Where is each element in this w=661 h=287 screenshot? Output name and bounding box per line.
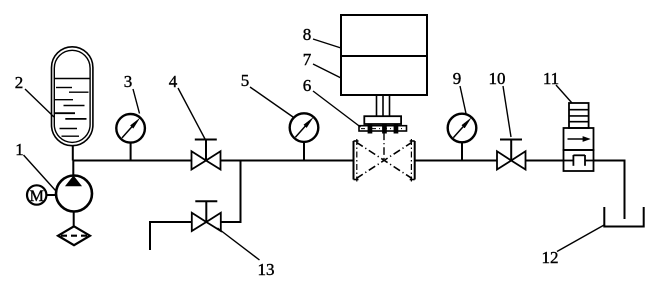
wire main line: flow meter 11 to tank 12 bbox=[594, 161, 625, 220]
actuator box 8 (upper) / 7 (lower) bbox=[341, 15, 427, 95]
svg-text:1: 1 bbox=[15, 140, 24, 159]
leader line 11 bbox=[556, 85, 572, 103]
left flange bbox=[353, 141, 355, 180]
valve 4 bbox=[192, 140, 221, 170]
svg-text:4: 4 bbox=[169, 72, 178, 91]
leader line 3 bbox=[133, 89, 140, 114]
svg-text:12: 12 bbox=[542, 248, 559, 267]
svg-text:13: 13 bbox=[258, 260, 275, 279]
wire branch down to valve 13 bbox=[221, 161, 241, 223]
wire drain from valve 13 bbox=[150, 222, 192, 250]
leader line 9 bbox=[460, 86, 466, 114]
pump 1 bbox=[56, 161, 92, 212]
wire accumulator stem bbox=[72, 146, 74, 161]
test valve (device under test) flanges and body bbox=[354, 133, 415, 182]
dash-dot X diagonal 2 bbox=[356, 142, 412, 178]
gauge 9 bbox=[448, 114, 477, 161]
leader line 10 bbox=[503, 86, 511, 137]
filter (diamond) bbox=[58, 226, 90, 245]
gauge 3 bbox=[116, 114, 145, 161]
vertical dash-dot centerline bbox=[383, 133, 385, 163]
wire main line: test valve right flange to valve 10 bbox=[415, 160, 497, 162]
motor M bbox=[27, 185, 56, 204]
svg-text:8: 8 bbox=[303, 25, 312, 44]
svg-text:10: 10 bbox=[489, 69, 506, 88]
tank 12 bbox=[604, 207, 643, 227]
dash-dot X diagonal 1 bbox=[356, 142, 412, 178]
svg-text:3: 3 bbox=[124, 72, 133, 91]
valve 13 bbox=[192, 201, 221, 231]
flow meter / regulator 11 bbox=[564, 103, 594, 171]
accumulator 2 bbox=[52, 47, 93, 146]
leader line 2 bbox=[25, 89, 54, 117]
leader line 13 bbox=[218, 228, 260, 260]
mounting flange 6 (plates and bolts) bbox=[359, 116, 407, 133]
svg-text:5: 5 bbox=[241, 71, 250, 90]
wire main line: pump junction to valve 4 bbox=[73, 160, 192, 162]
leader line 12 bbox=[557, 225, 605, 252]
svg-text:M: M bbox=[30, 188, 44, 205]
gauge 5 bbox=[290, 113, 319, 160]
leader line 1 bbox=[24, 155, 56, 191]
leader line 6 bbox=[313, 91, 361, 127]
svg-text:2: 2 bbox=[15, 73, 24, 92]
wire main line: valve 4 to test valve left flange bbox=[221, 160, 354, 162]
wire pump to filter bbox=[73, 212, 75, 227]
leader line 7 bbox=[313, 64, 341, 78]
right flange bbox=[414, 141, 416, 180]
leader line 8 bbox=[313, 39, 341, 48]
valve 10 bbox=[497, 140, 526, 170]
svg-text:9: 9 bbox=[453, 69, 462, 88]
wire main line: valve 10 to flow meter 11 bbox=[526, 160, 564, 162]
stem lines from actuator to flange bbox=[377, 95, 390, 116]
leader line 4 bbox=[178, 88, 205, 139]
svg-text:6: 6 bbox=[303, 76, 312, 95]
svg-text:7: 7 bbox=[303, 50, 312, 69]
leader line 5 bbox=[250, 87, 293, 117]
svg-text:11: 11 bbox=[543, 69, 559, 88]
